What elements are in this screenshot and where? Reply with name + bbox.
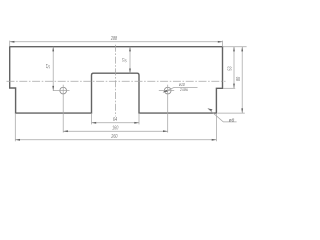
dimension 64 arrow left [92,122,97,124]
hole H2 crosshair vertical / extension to 160 dim [167,85,169,133]
svg-text:288: 288 [110,36,117,42]
dimension 53 line [233,47,235,89]
dimension 37 arrow bottom [129,69,131,74]
dimension 80 arrow bottom [241,108,243,113]
dimension 288 arrow left [10,41,15,43]
dimension 160 arrow right [163,130,168,132]
dimension 53 arrow top [233,47,235,52]
svg-text:57: 57 [46,63,52,68]
hole H2 (right) [164,87,171,94]
dimension 160 arrow left [63,130,68,132]
svg-text:160: 160 [112,125,118,131]
notch extension left for 64 dim [91,113,93,124]
hole H1 (left) [60,87,67,94]
svg-text:64: 64 [113,117,117,123]
dimension 80 line [241,47,243,113]
svg-text:37: 37 [122,57,128,62]
dimension 160 line [63,130,168,132]
hole H1 crosshair horizontal [53,90,70,92]
svg-text:260: 260 [111,134,118,140]
svg-text:ø8: ø8 [229,117,235,122]
step edge extension right for 53 dim [223,87,235,89]
bottom-left corner extension for 260 dim [14,113,16,141]
bottom edge extension right for 80 dim [218,112,245,114]
dimension 80 arrow top [241,47,243,52]
dimension 64 arrow right [134,122,139,124]
horizontal centerline [7,80,226,82]
dimension 288 arrow right [218,41,223,43]
dimension 64 line [92,122,140,124]
vertical centerline [115,45,117,117]
dimension 260 line [15,139,216,141]
dimension 53 arrow bottom [233,84,235,89]
dimension 288 extension left [9,41,11,47]
top edge extension to right for 53/80 dims [223,46,247,48]
hole H2 crosshair horizontal [159,90,174,92]
dimension 260 arrow right [212,139,217,141]
dimension 37 line [129,47,131,73]
bottom-right corner extension for 260 dim [215,113,217,141]
hole H1 crosshair vertical / extension to 160 dim [62,85,64,133]
dimension 288 extension right [222,41,224,47]
notch extension right for 64 dim [138,113,140,124]
dimension 57 arrow top [52,47,54,52]
dimension 37 arrow top [129,47,131,52]
corner note leader [208,108,237,122]
corner note leader arrow [208,108,213,111]
hole note leader [163,87,198,92]
dimension 260 arrow left [15,139,20,141]
svg-text:80: 80 [236,77,242,81]
part outline [10,47,223,113]
dimension 288 line [10,41,223,43]
hole note leader arrow [163,90,168,92]
svg-text:2 отв.: 2 отв. [179,87,188,92]
dimension 57 arrow bottom [52,86,54,91]
svg-text:53: 53 [227,66,233,70]
dimension 57 line [52,47,54,91]
